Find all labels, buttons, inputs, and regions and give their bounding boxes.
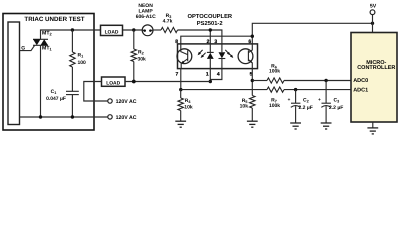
resistor R4 10k — [178, 90, 193, 121]
junction C1 on rail — [71, 115, 74, 118]
ground R4 — [175, 121, 186, 127]
node pin5/R5/R6 — [251, 79, 254, 82]
wire R7 to ADC1 — [284, 89, 351, 91]
svg-text:TRIAC UNDER TEST: TRIAC UNDER TEST — [24, 16, 84, 23]
capacitor C1 0.047uF — [46, 89, 79, 117]
svg-text:R4: R4 — [185, 98, 192, 104]
svg-text:+: + — [288, 97, 291, 102]
DUT socket bar — [8, 22, 20, 125]
svg-text:C2: C2 — [303, 98, 309, 104]
wire R6 to ADC0 — [284, 80, 351, 82]
svg-text:3: 3 — [214, 39, 217, 45]
bottom rail wire — [20, 116, 108, 118]
ground microcontroller — [367, 122, 378, 134]
svg-text:1: 1 — [206, 72, 209, 78]
pin 7 lead down — [180, 69, 182, 90]
svg-text:2.2 µF: 2.2 µF — [299, 105, 313, 111]
resistor R6 100k — [267, 63, 284, 83]
svg-text:8: 8 — [175, 39, 178, 45]
resistor R7 100k — [267, 87, 284, 109]
resistor R5 10k — [240, 96, 255, 122]
node pin7/R4/R7 — [179, 88, 182, 91]
junction C3 top — [324, 79, 327, 82]
optocoupler U1 PS2501-2 box — [178, 13, 258, 68]
wire R3 to pins 2,3 — [178, 30, 222, 44]
node R2 top — [132, 28, 135, 31]
node load2/R2 — [132, 80, 136, 84]
wire pin8 to pin6 tie — [181, 36, 253, 44]
svg-text:30k: 30k — [138, 57, 147, 63]
node MT2 / R1 junction — [71, 28, 74, 31]
svg-text:OPTOCOUPLER: OPTOCOUPLER — [187, 13, 232, 20]
microcontroller U2 — [351, 33, 397, 123]
ground C2 — [290, 123, 301, 129]
svg-text:5V: 5V — [370, 3, 377, 9]
wire top MT2 to load — [41, 30, 101, 40]
junction pin6 tie — [251, 35, 254, 38]
wire load to neon — [123, 29, 143, 31]
load box upper — [101, 25, 123, 35]
pin 5 lead down — [251, 69, 253, 96]
svg-text:PS2501-2: PS2501-2 — [197, 20, 223, 27]
svg-text:MT1: MT1 — [42, 46, 53, 52]
svg-text:C3: C3 — [334, 98, 340, 104]
junction 5V — [371, 22, 374, 25]
svg-text:4.7k: 4.7k — [163, 19, 173, 25]
wire load2 left to AC terminal — [84, 82, 108, 102]
svg-text:10k: 10k — [240, 103, 249, 109]
neon lamp 606-A1C — [136, 3, 156, 36]
svg-text:MT2: MT2 — [42, 31, 53, 37]
ground C3 — [321, 123, 332, 129]
ground R5 — [247, 121, 258, 127]
svg-text:100k: 100k — [269, 103, 280, 109]
svg-text:7: 7 — [176, 72, 179, 78]
LED D1 (pins 2-1) — [207, 44, 214, 69]
pin 4 lead and bracket — [210, 69, 222, 80]
resistor R2 30k — [131, 30, 146, 82]
svg-text:C1: C1 — [51, 89, 57, 95]
light arrows to left transistor — [198, 50, 206, 58]
svg-text:ADC0: ADC0 — [353, 78, 368, 84]
svg-text:2.2 µF: 2.2 µF — [329, 105, 343, 111]
svg-text:0.047 µF: 0.047 µF — [46, 96, 66, 102]
load box lower — [102, 77, 126, 87]
phototransistor left — [177, 44, 192, 69]
svg-text:120V AC: 120V AC — [116, 115, 137, 121]
svg-text:100: 100 — [78, 60, 87, 66]
phototransistor right — [238, 44, 253, 69]
gate wire G — [20, 45, 35, 51]
wire ADC0 net — [252, 80, 267, 82]
svg-text:120V AC: 120V AC — [116, 99, 137, 105]
enclosure TRIAC UNDER TEST — [3, 14, 94, 131]
light arrows to right transistor — [225, 50, 233, 58]
svg-text:G: G — [21, 46, 25, 52]
wire pin6 to 5V — [252, 23, 372, 44]
junction MT1 on rail — [39, 115, 42, 118]
svg-text:2: 2 — [207, 39, 210, 45]
svg-text:6: 6 — [248, 39, 251, 45]
svg-text:4: 4 — [217, 72, 220, 78]
pin 2 lead — [209, 30, 211, 44]
wire load2 to pin1 node — [125, 81, 210, 83]
svg-text:606-A1C: 606-A1C — [136, 14, 156, 20]
node pin1 — [209, 80, 212, 83]
svg-text:100k: 100k — [269, 69, 280, 75]
svg-text:LOAD: LOAD — [105, 29, 119, 35]
svg-text:10k: 10k — [184, 105, 193, 111]
svg-text:R2: R2 — [138, 50, 144, 56]
svg-text:CONTROLLER: CONTROLLER — [357, 65, 395, 71]
capacitor C3 2.2uF — [318, 81, 343, 123]
wire ADC1 net — [181, 89, 267, 91]
svg-text:R1: R1 — [78, 53, 84, 59]
svg-text:+: + — [318, 97, 321, 102]
junction pin2 — [209, 28, 212, 31]
svg-text:LOAD: LOAD — [106, 81, 120, 87]
svg-text:ADC1: ADC1 — [353, 88, 368, 94]
resistor R3 4.7k — [161, 13, 178, 32]
terminal 120V AC upper — [108, 99, 137, 105]
triac Q1 under test — [33, 31, 53, 117]
resistor R1 100 — [70, 30, 86, 91]
terminal 120V AC lower — [108, 115, 137, 121]
capacitor C2 2.2uF — [288, 90, 313, 123]
pin 1 lead down — [209, 69, 211, 82]
LED D2 (pins 3-4) — [219, 44, 226, 69]
junction C2 top — [294, 88, 297, 91]
5V supply terminal — [370, 3, 377, 32]
wire neon to R3 — [153, 29, 161, 31]
